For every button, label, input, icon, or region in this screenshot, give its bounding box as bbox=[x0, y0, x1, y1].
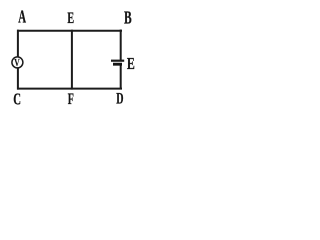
wire bottom C-F-D bbox=[17, 88, 122, 90]
battery E long plate bbox=[111, 60, 124, 62]
svg-text:D: D bbox=[116, 89, 123, 107]
wire left upper A to voltmeter bbox=[17, 30, 19, 57]
wire top A-E-B bbox=[17, 30, 122, 32]
wire middle E-F bbox=[71, 30, 73, 90]
svg-text:E: E bbox=[67, 8, 74, 26]
wire right lower battery to D bbox=[120, 66, 122, 90]
battery E short plate bbox=[113, 63, 122, 66]
svg-text:V: V bbox=[14, 57, 20, 68]
svg-text:C: C bbox=[13, 90, 21, 109]
voltmeter V1 circle bbox=[12, 57, 23, 68]
svg-text:B: B bbox=[124, 9, 132, 28]
wire left lower voltmeter to C bbox=[17, 68, 19, 90]
wire right upper B to battery bbox=[120, 30, 122, 61]
svg-text:F: F bbox=[68, 89, 74, 107]
svg-text:E: E bbox=[127, 55, 135, 74]
svg-text:A: A bbox=[18, 8, 26, 27]
